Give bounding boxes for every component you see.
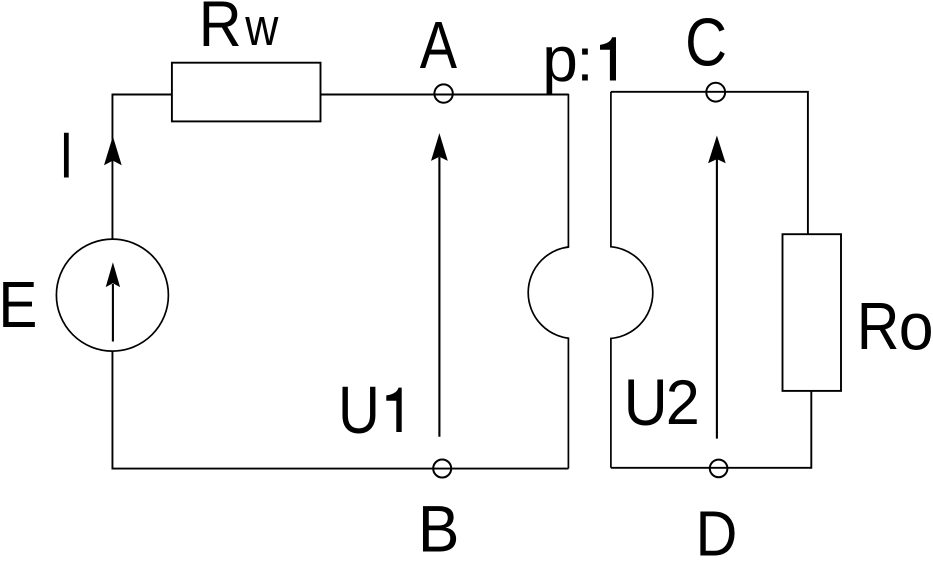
svg-text:p: p [542,23,578,95]
wire: transformer primary vertical top segment [567,94,569,247]
svg-text:E: E [0,269,37,342]
svg-text:D: D [696,498,738,569]
voltage source E circle [56,239,168,351]
current I arrowhead on left wire [104,136,122,165]
svg-text:w: w [244,0,278,57]
label C [685,5,727,80]
wire: bottom-left horizontal (B rail) [112,351,568,469]
svg-text:o: o [899,288,933,363]
label Ro (R) [857,290,900,364]
label p:1 (1) [600,37,616,80]
source E arrow stem [112,284,114,342]
label I [59,120,73,192]
wire: transformer secondary vertical bottom segment [610,338,612,468]
svg-text:A: A [420,8,457,83]
wire: top-left horizontal from source corner to Rw [112,95,171,240]
svg-text:R: R [199,0,242,60]
svg-text:2: 2 [666,368,700,438]
source E arrowhead [106,262,120,287]
resistor Ro [783,234,842,391]
wire: transformer secondary vertical top segment [610,92,612,247]
svg-text:I: I [59,120,73,192]
voltage U1 arrow stem [438,157,440,437]
node C circle [706,83,725,102]
resistor Rw [172,63,321,122]
label U1 (1) [386,388,401,432]
svg-text:B: B [418,492,460,566]
label D [696,498,738,569]
label Rw (R) [199,0,242,60]
voltage U2 arrowhead [708,136,726,164]
label A [420,8,457,83]
node D circle [710,460,728,478]
transformer primary coil circle (left, clipped) [528,247,620,339]
svg-text::: : [577,26,594,93]
label p:1 (p) [542,23,578,95]
wire: Ro bottom to D rail [611,391,811,468]
svg-text:R: R [857,290,900,364]
node A circle [434,84,452,102]
wire: transformer primary vertical bottom segment [567,338,569,468]
label U2 (2) [666,368,700,438]
label p:1 (:) [577,26,594,93]
svg-text:U: U [338,373,380,448]
svg-text:U: U [624,364,668,439]
svg-text:C: C [685,5,727,80]
voltage U1 arrowhead [431,133,448,161]
voltage U2 arrow stem [716,159,718,439]
label E [0,269,37,342]
label Ro (o) [899,288,933,363]
label U1 (U) [338,373,380,448]
label U2 (U) [624,364,668,439]
wire: Rw to transformer primary top [321,94,569,96]
transformer secondary coil circle (right, clipped) [561,247,653,339]
node B circle [433,460,451,478]
wire: top-right horizontal from secondary to Ro [611,92,808,234]
label Rw (w) [244,0,278,57]
label B [418,492,460,566]
